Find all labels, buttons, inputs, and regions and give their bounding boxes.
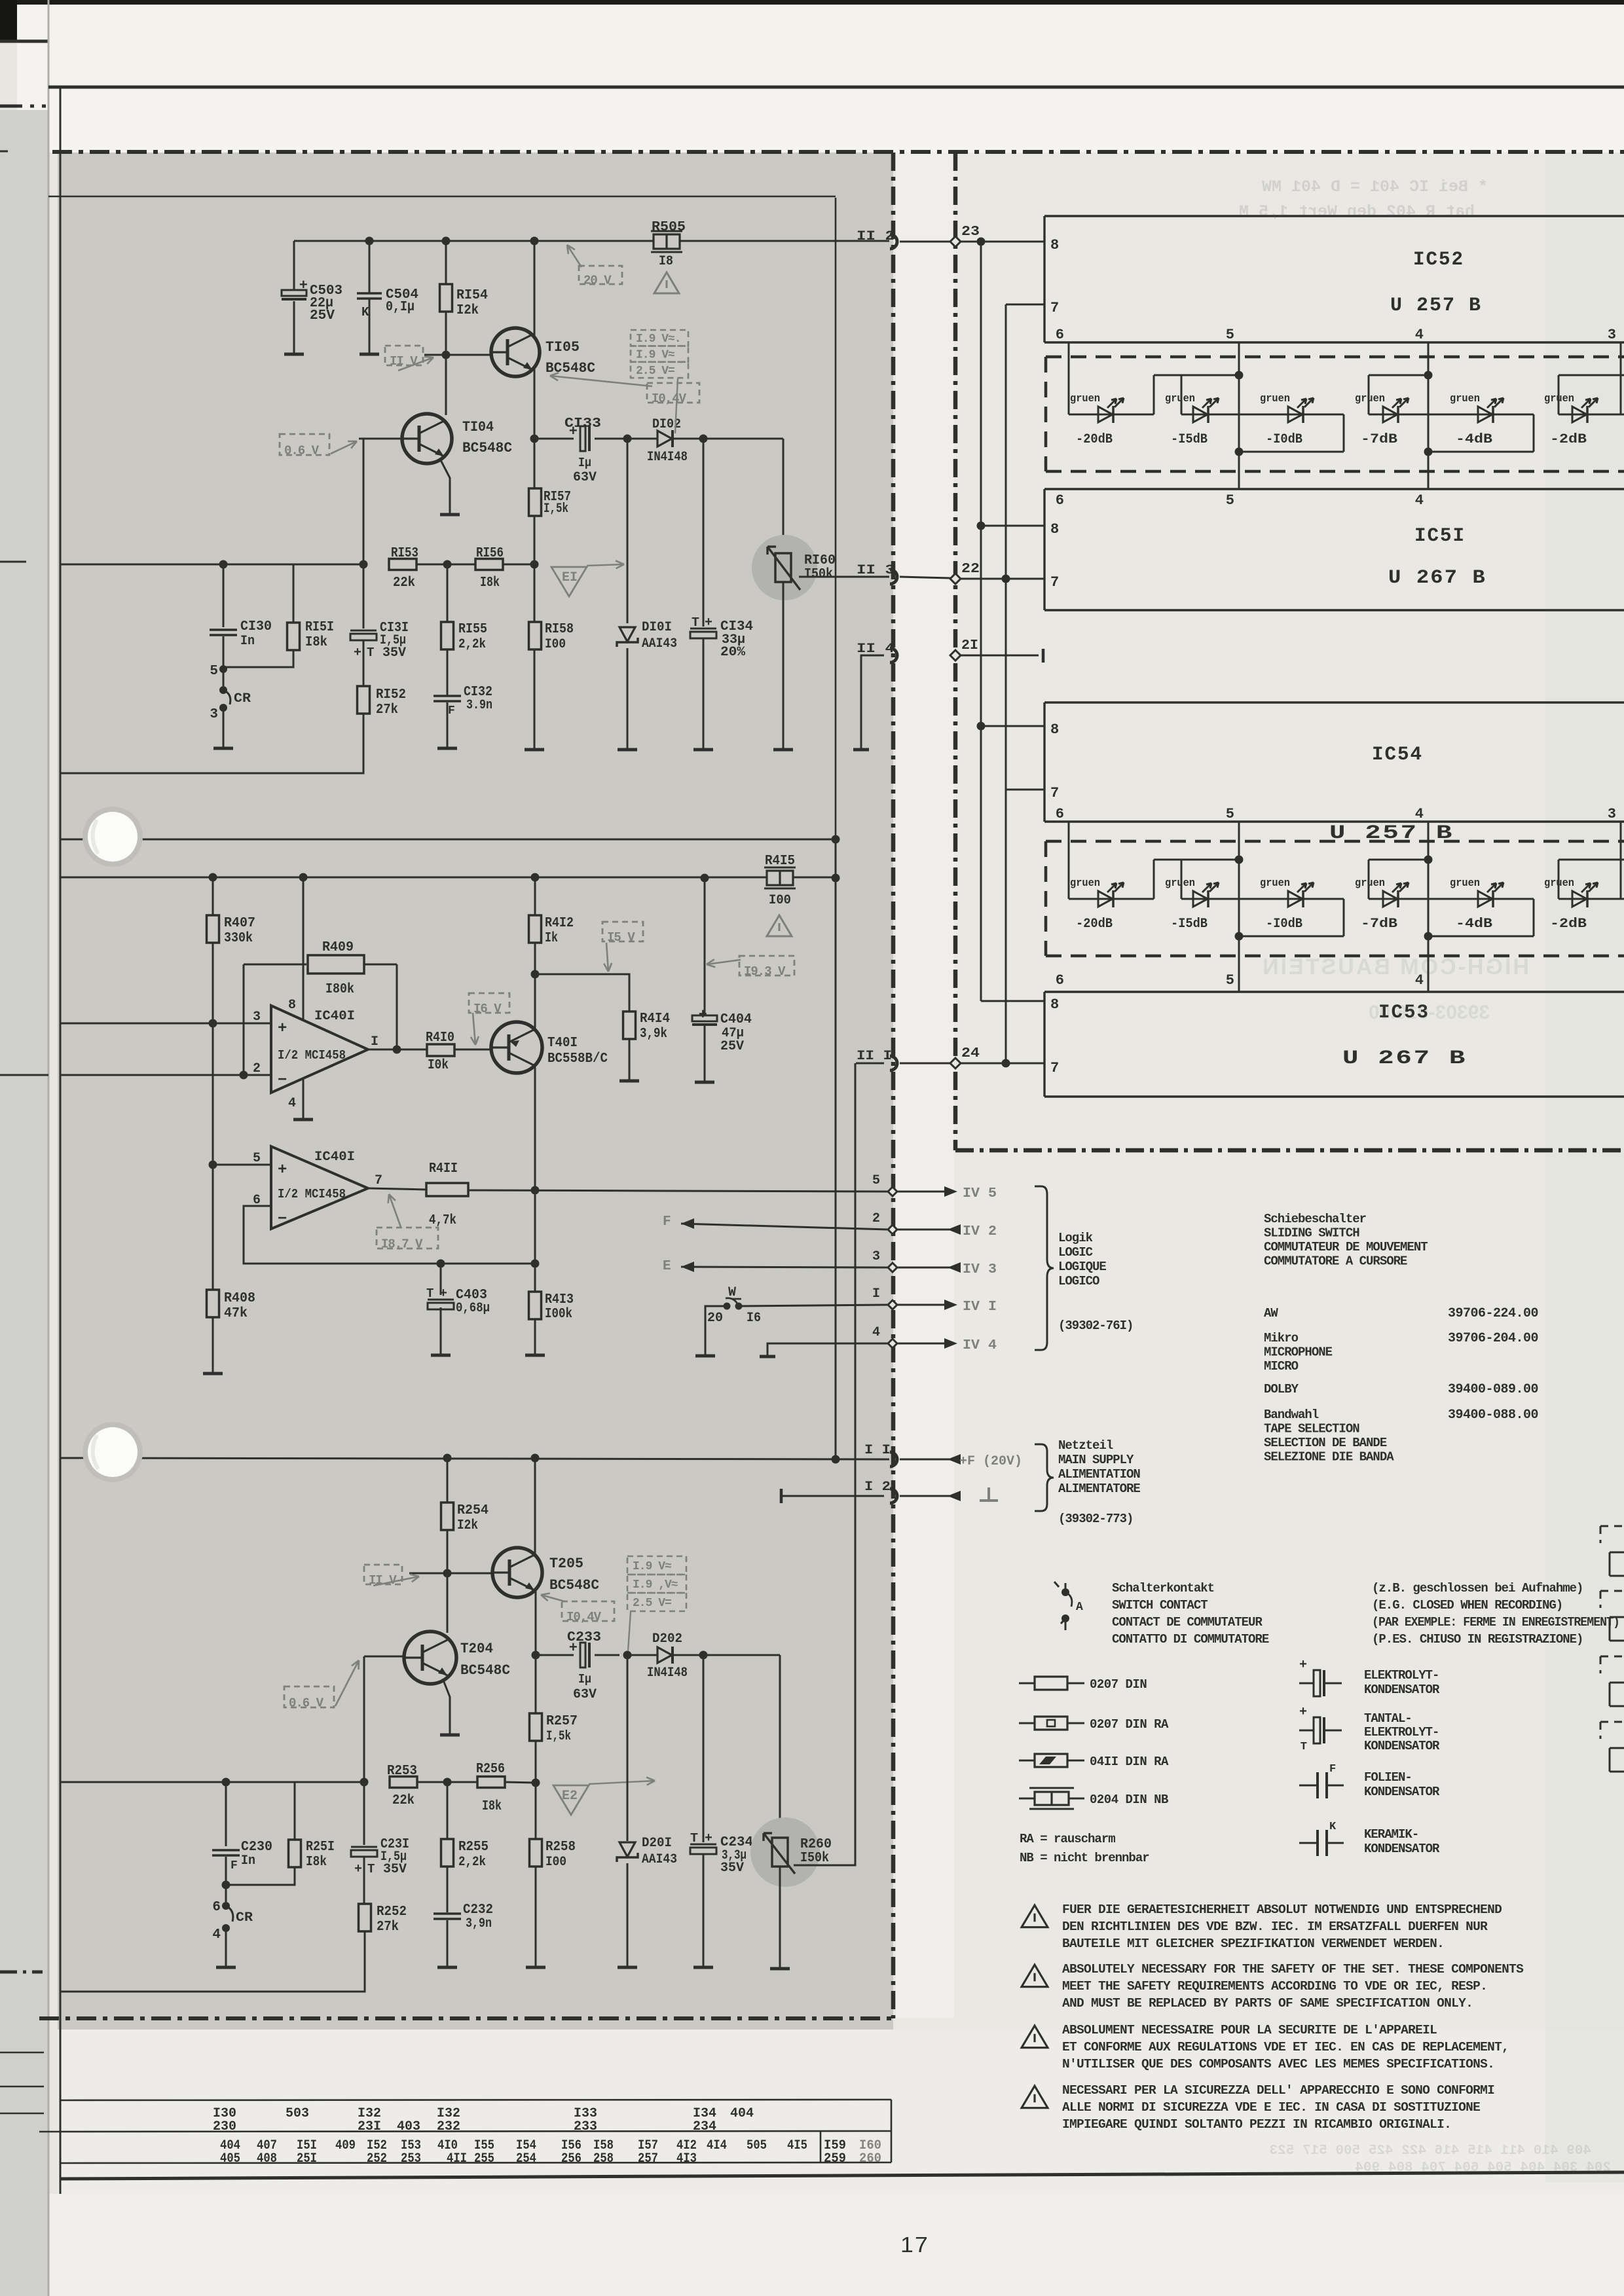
margin fragment line c [0,2113,44,2115]
ground C230 line [216,1966,236,1969]
prev-page line fragment top-left [0,40,48,43]
wire W left stub [705,1306,727,1355]
svg-text:II V: II V [369,1573,397,1588]
svg-text:(P.ES. CHIUSO IN REGISTRAZIONE: (P.ES. CHIUSO IN REGISTRAZIONE) [1372,1632,1583,1647]
svg-text:17: 17 [900,2232,929,2257]
svg-text:K: K [1329,1821,1337,1833]
svg-text:IV 5: IV 5 [963,1186,997,1201]
node T105 base [442,351,451,359]
margin fragment line b [0,2086,44,2088]
node rail x1277 [832,874,840,883]
resistor R505 0204-DIN on rail [654,234,680,249]
svg-text:F: F [1329,1763,1336,1776]
svg-text:IC54: IC54 [1372,744,1423,766]
ground C404 [695,1081,714,1084]
border line top [48,86,1624,89]
ground R413 [525,1354,545,1357]
svg-text:2.5 V=: 2.5 V= [633,1597,671,1610]
vertical bold dash-dot divider A [891,153,896,2018]
wire C134 drop [703,439,705,627]
svg-text:408: 408 [257,2151,277,2166]
warning triangle paragraph 2 [1022,1965,1048,1987]
wire meter pin 5 vertical [1238,342,1240,489]
stub bar R160 [773,748,793,752]
svg-text:3: 3 [1608,327,1616,343]
svg-text:IC40I: IC40I [314,1009,355,1024]
resistor R156 [475,559,503,570]
wire T104 base drop [363,439,365,564]
svg-text:04II DIN RA: 04II DIN RA [1090,1755,1169,1769]
svg-text:U 257 B: U 257 B [1390,295,1482,317]
resistor R253 [390,1777,417,1788]
svg-text:0207 DIN: 0207 DIN [1090,1677,1147,1692]
wire C504 branch [369,241,371,293]
svg-text:505: 505 [747,2138,767,2153]
node step 4 low [1424,448,1433,456]
svg-text:6: 6 [1056,806,1064,822]
svg-text:I I: I I [864,1443,891,1458]
svg-text:Schalterkontakt: Schalterkontakt [1112,1581,1214,1595]
svg-text:257: 257 [638,2151,658,2166]
wire C404 drop [704,878,706,1015]
wire 22 to IC51 pin7 [961,578,1044,580]
node step 4 low [1424,932,1433,941]
ground T204 [440,1734,460,1737]
svg-text:IMPIEGARE QUINDI SOLTANTO PEZZ: IMPIEGARE QUINDI SOLTANTO PEZZI IN RICAM… [1062,2117,1451,2132]
resistor R251 [289,1840,301,1867]
svg-text:+: + [278,1020,287,1038]
svg-text:CR: CR [234,691,251,706]
svg-text:−: − [278,1072,287,1089]
node T104 base row / emitter [530,435,539,443]
svg-text:−: − [278,1211,287,1228]
svg-text:8: 8 [1050,996,1059,1013]
resistor R151 [287,623,300,650]
svg-text:II V: II V [390,354,418,369]
wire R257 leads [535,1655,537,1713]
wire C503 branch [293,241,295,291]
warning triangle paragraph 4 [1022,2086,1048,2108]
arrow 20V [567,245,581,267]
resistor R409 [308,955,364,974]
node C230 column [222,1778,231,1787]
svg-text:5: 5 [1226,492,1234,509]
resistor R252 [359,1904,371,1931]
node D201 column top [623,1651,632,1660]
node C130 column [219,560,228,569]
wire II4 stub [861,655,884,749]
voltage box 16V [469,993,509,1013]
svg-text:I50k: I50k [800,1851,829,1866]
node rail/R154 [442,237,451,246]
svg-text:RI55: RI55 [458,622,487,637]
table line top [60,2100,891,2100]
wire input row bottom block [60,1781,364,1783]
svg-text:D202: D202 [652,1631,682,1647]
wire R414 branch [535,974,629,1012]
svg-text:E: E [663,1259,671,1274]
ground W [695,1355,715,1358]
svg-text:6: 6 [212,1900,221,1915]
capacitor C504 [357,292,382,295]
wire op-amp2 output row [368,1188,426,1190]
svg-text:63V: 63V [573,470,597,485]
wire C234 to ground [703,1855,705,1967]
wire pin4 ground stub [303,1078,304,1119]
wire led row 5 [1428,898,1534,900]
op-amp U1 IC401a [271,1006,368,1093]
svg-text:0204 DIN NB: 0204 DIN NB [1090,1793,1168,1807]
svg-text:35V: 35V [383,1862,407,1877]
svg-text:403: 403 [397,2119,420,2134]
brace netzteil group [1035,1444,1054,1511]
node rail R254 [443,1454,452,1463]
wire R160 to II3 [799,576,889,578]
wire T401 top to R412 node [534,974,536,1029]
node x1498/803 [977,522,986,530]
svg-text:T: T [367,646,374,660]
svg-text:T40I: T40I [547,1036,578,1051]
resistor R413 [529,1292,542,1319]
wire T205 base [409,1573,492,1575]
capacitor C231 [351,1846,377,1848]
svg-text:gruen: gruen [1355,877,1385,890]
svg-text:FUER DIE GERAETESICHERHEIT ABS: FUER DIE GERAETESICHERHEIT ABSOLUT NOTWE… [1062,1903,1502,1917]
wire C404 to ground [704,1025,706,1082]
svg-text:U 267 B: U 267 B [1342,1048,1467,1070]
switch contact CR playback [222,1924,230,1932]
wire C234 drop [703,1655,705,1842]
potentiometer R160 [775,553,791,582]
table border inner [820,2131,822,2162]
svg-text:252: 252 [367,2151,387,2166]
wire led row 3 [1239,414,1344,416]
svg-text:2.5 V=: 2.5 V= [636,365,674,378]
margin fragment pin2 row [0,1074,48,1076]
svg-text:I: I [371,1034,378,1049]
svg-text:-I5dB: -I5dB [1171,432,1208,447]
node D101 column top [623,435,632,443]
svg-text:BC548C: BC548C [462,440,512,456]
resistor R257 [530,1713,542,1741]
wire feedback row to C403 [441,1263,535,1265]
svg-text:258: 258 [593,2151,614,2166]
svg-text:C404: C404 [720,1012,752,1027]
svg-text:TAPE SELECTION: TAPE SELECTION [1264,1422,1359,1436]
wire led low 4-5 [1428,451,1534,453]
svg-text:ALLE NORMI DI SICUREZZA VDE E: ALLE NORMI DI SICUREZZA VDE E IEC. IN CA… [1062,2100,1480,2115]
svg-text:U 267 B: U 267 B [1388,567,1486,589]
svg-text:23: 23 [961,225,980,240]
svg-text:A: A [1076,1601,1083,1614]
svg-text:FOLIEN-: FOLIEN- [1364,1770,1412,1785]
wire +20V rail top block [294,240,889,242]
wire C230 drop [225,1782,227,1846]
transistor T105 [491,328,540,376]
svg-text:I2k: I2k [456,303,479,318]
LED green -7dB IC54 [1383,891,1397,907]
svg-text:+: + [699,1007,707,1023]
svg-text:I.9 ,V≈: I.9 ,V≈ [633,1578,678,1592]
svg-text:R409: R409 [322,940,354,955]
node R407/pin3 [209,1019,217,1028]
LED green -2dB IC54 [1572,891,1587,907]
capacitor C234 [690,1844,716,1846]
wire T105 collector [534,241,536,337]
wire C231 to R252 [363,1857,365,1904]
node R155 column [443,560,452,569]
wire to D202 [627,1654,657,1656]
svg-text:3,9k: 3,9k [640,1027,667,1042]
svg-text:R408: R408 [224,1291,255,1306]
capacitor C130 [210,629,237,631]
svg-text:Iµ: Iµ [578,1672,591,1686]
legend resistor 0204 DIN NB symbol [1019,1798,1084,1800]
ground R414 [619,1080,639,1083]
node 21 diamond [950,650,961,661]
arrow IV2 [948,1224,961,1235]
margin fragment dashdot [0,1971,43,1974]
arrow I2 [948,1491,961,1501]
wire IC52 pin7 [1006,304,1044,306]
svg-text:27k: 27k [377,1920,399,1935]
voltage box 18.7V [377,1228,438,1248]
svg-text:230: 230 [213,2119,236,2134]
wire meter pin 6 vertical [1068,822,1070,899]
wire op-amp1 output [368,1049,427,1051]
wire C403 to ground [440,1307,442,1355]
svg-text:KONDENSATOR: KONDENSATOR [1364,1842,1440,1856]
ground IV4 stub [760,1355,775,1358]
svg-text:gruen: gruen [1070,393,1100,405]
table line bottom [60,2162,891,2163]
svg-text:(PAR EXEMPLE: FERME IN ENREGIS: (PAR EXEMPLE: FERME IN ENREGISTREMENT) [1372,1615,1619,1630]
wire II1 to 24 [900,1063,950,1065]
svg-text:R257: R257 [546,1714,578,1729]
wire R409 right [364,964,397,966]
IC box IC5I [1044,489,1624,610]
wire 23 to IC52 pin8 [961,241,1044,243]
svg-text:+: + [299,278,308,294]
svg-text:gruen: gruen [1260,877,1290,890]
wire C234-node to R260 corner [703,1654,780,1656]
LED green -I0dB IC52 [1288,407,1302,422]
svg-text:BC558B/C: BC558B/C [547,1051,608,1066]
wire x1498 vertical [980,242,982,1001]
svg-text:35V: 35V [720,1861,744,1876]
wire T104 emitter [440,459,450,514]
svg-text:3: 3 [1608,806,1616,822]
connector IV2 diamond [888,1225,897,1234]
svg-text:25V: 25V [310,308,335,323]
svg-text:I/2 MCI458: I/2 MCI458 [278,1048,346,1063]
node R251/C230 [222,1881,231,1889]
svg-text:260: 260 [859,2151,881,2166]
node x1536/1624 [1002,1059,1010,1068]
wire x325 to R408 [212,1165,214,1290]
wire led row 2 [1181,898,1239,900]
legend switch contact symbol [1061,1588,1069,1596]
voltage box 15V [602,922,643,941]
svg-text:2I: 2I [961,638,978,653]
dash-dot frame fragment left margin [0,105,46,108]
svg-text:I8k: I8k [305,635,327,650]
wire x1277 vertical [835,839,837,1459]
wire led row 6 [1559,414,1624,416]
wire led row 5 [1428,414,1534,416]
svg-text:409 410 411 415 416 422 425 50: 409 410 411 415 416 422 425 500 517 523 [1270,2143,1591,2159]
arrow IV1 [944,1300,957,1310]
node rail R407 [209,873,217,882]
svg-text:K: K [361,305,369,319]
node step 5 low [1235,448,1244,456]
svg-text:I00: I00 [545,637,566,652]
wire R152 to bottom return [60,714,363,773]
node rail C404 [701,874,709,883]
svg-text:63V: 63V [573,1687,597,1702]
svg-text:T: T [367,1862,375,1876]
voltage box 11V top block [385,346,423,365]
LED green -I5dB IC52 [1193,407,1208,422]
arrow 15V [606,943,608,972]
svg-text:R4II: R4II [429,1161,458,1176]
wire thin-border corner drop x1277 [835,198,837,839]
scan left edge strip [0,0,17,42]
node step 5 up [1235,371,1244,380]
node feedback pin2 [240,1071,248,1080]
warning triangle R505 [654,272,679,293]
svg-text:I80k: I80k [325,982,354,997]
svg-text:IV 3: IV 3 [963,1262,997,1277]
svg-text:hat R 402 den Wert 1,5 M: hat R 402 den Wert 1,5 M [1239,202,1475,221]
svg-text:-I0dB: -I0dB [1266,917,1302,932]
voltage box 11V bottom block [364,1565,402,1584]
wire IC54 pin7 [1006,789,1044,791]
svg-text:In: In [240,634,255,649]
stub bar R260 [770,1967,790,1971]
svg-text:I 2: I 2 [864,1480,891,1495]
wire CR to ground [223,708,225,748]
capacitor C230 [212,1849,240,1851]
svg-text:0,Iµ: 0,Iµ [386,300,415,315]
svg-text:E2: E2 [562,1789,578,1804]
node rail pin8 [299,873,308,882]
svg-text:C232: C232 [463,1903,493,1918]
node rail/C504 [365,237,374,246]
svg-text:I,5k: I,5k [546,1729,571,1744]
LED dashed box [1046,840,1624,843]
node C403 [437,1260,445,1268]
voltage box 10.4V top block [647,383,699,403]
svg-text:RI54: RI54 [456,288,488,303]
legend folien symbol [1299,1785,1316,1787]
svg-text:-2dB: -2dB [1550,432,1587,447]
node step 5 low [1235,932,1244,941]
node x1498/1109 [977,722,986,731]
wire R254 top [447,1458,449,1503]
svg-text:330k: 330k [224,931,253,946]
svg-text:4: 4 [212,1927,221,1942]
node C131 column [360,560,368,569]
svg-text:4I4: 4I4 [707,2138,727,2153]
transistor T401 [491,1022,542,1073]
svg-text:KONDENSATOR: KONDENSATOR [1364,1739,1440,1753]
node rail R412 [531,873,540,882]
LED green -I0dB IC54 [1288,891,1302,907]
wire C133 row [534,438,574,440]
warning triangle paragraph 1 [1022,1905,1048,1927]
svg-text:R4I3: R4I3 [545,1292,574,1307]
transistor T204 [404,1631,456,1684]
svg-text:-2dB: -2dB [1550,917,1587,932]
svg-text:35V: 35V [382,646,406,661]
svg-text:gruen: gruen [1544,393,1574,405]
wire R160 bottom stub [783,582,784,749]
svg-text:BC548C: BC548C [460,1662,510,1679]
arrow 10.4V bottom [541,1595,564,1601]
resistor R157 [529,488,542,516]
ghost print-through top right [1239,177,1488,221]
wire R151 drop from input row [293,564,295,623]
svg-text:6: 6 [1056,327,1064,343]
svg-text:7: 7 [1050,1060,1059,1076]
wire I1 right [900,1459,948,1461]
legend resistor 0411 DIN RA symbol [1019,1760,1084,1762]
capacitor C133 [580,426,585,451]
brace logic group [1035,1186,1054,1350]
svg-text:SWITCH CONTACT: SWITCH CONTACT [1112,1598,1208,1613]
wire R255 to C232 [447,1867,449,1912]
wire R255 drop [447,1782,449,1840]
svg-text:4: 4 [1415,806,1424,822]
wire C131 to R152 [363,641,365,687]
svg-text:C230: C230 [241,1840,272,1855]
svg-text:4,7k: 4,7k [429,1213,456,1228]
svg-text:2: 2 [872,1211,880,1226]
arrow 16V [473,1013,475,1045]
svg-text:2,2k: 2,2k [458,637,486,652]
ground C504 [360,353,379,356]
svg-text:+: + [1299,1658,1307,1673]
svg-text:3: 3 [210,707,218,722]
svg-text:234: 234 [693,2119,716,2134]
resistor R408 [207,1290,219,1317]
svg-text:6: 6 [1056,972,1064,989]
svg-text:SELEZIONE DIE BANDA: SELEZIONE DIE BANDA [1264,1450,1394,1465]
vertical bold dash-dot frame B [953,153,958,1150]
wire R151 bottom to node5 [223,650,293,667]
wire II3 to 22 [900,577,950,578]
node 24 diamond [950,1058,961,1068]
wire IC51 pin8 [981,525,1044,527]
LED green -7dB IC52 [1383,407,1397,422]
svg-text:R407: R407 [224,916,255,931]
wire II1 left corner [856,1063,884,1065]
potentiometer R260 [772,1838,788,1867]
svg-text:Logik: Logik [1058,1231,1093,1245]
svg-text:4: 4 [1415,492,1424,509]
svg-text:I,5k: I,5k [544,501,568,517]
svg-text:5: 5 [1226,972,1234,989]
svg-text:gruen: gruen [1260,393,1290,405]
cut component dashed box 3 [1600,1656,1624,1658]
ground C134 [693,748,713,752]
svg-text:I5 V: I5 V [607,930,635,945]
voltage box 0.6V top block [280,434,329,455]
arrow IV5 [944,1186,957,1197]
svg-text:T205: T205 [549,1556,583,1572]
LED green -4dB IC52 [1478,407,1492,422]
